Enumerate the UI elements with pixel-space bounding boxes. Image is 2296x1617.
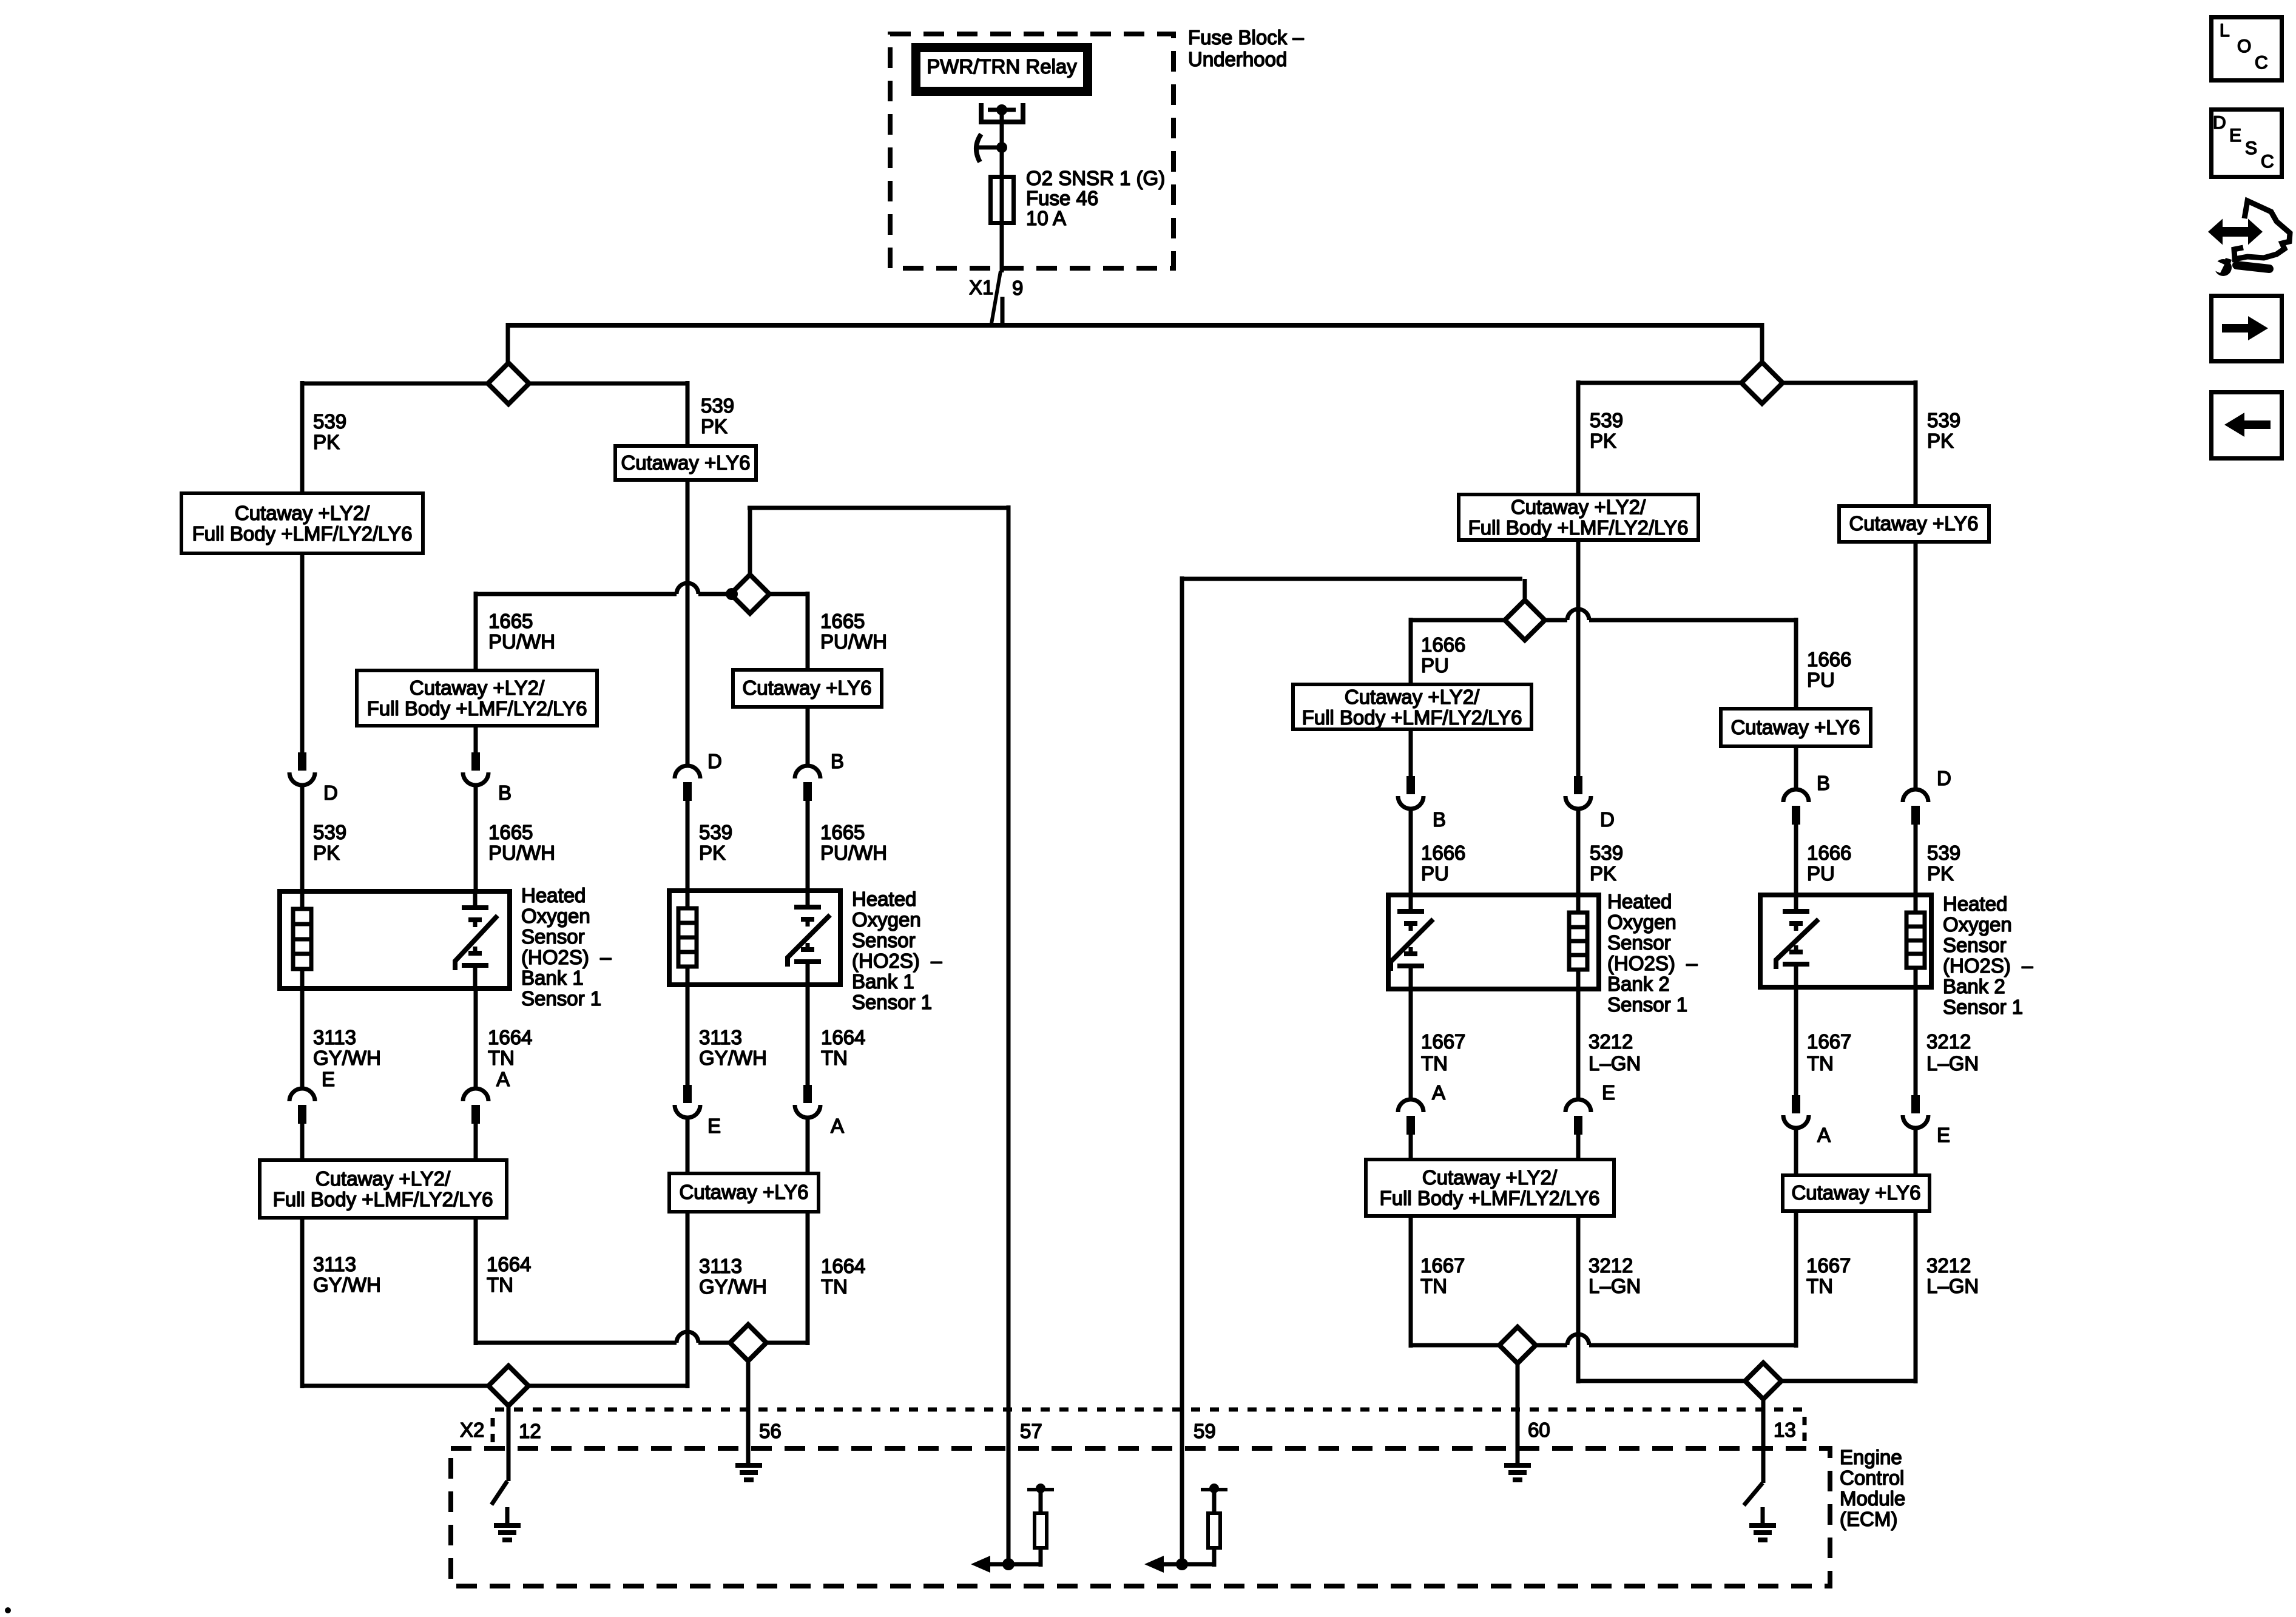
svg-text:Cutaway +LY2/: Cutaway +LY2/ [316,1167,451,1190]
ECM pin 13 internal switch to ground [1744,1483,1763,1505]
svg-text:1666: 1666 [1421,842,1465,864]
wire col5 [1409,809,1413,895]
sensor cell B2S1-2 [1776,893,1818,990]
ground (pin 13) [1749,1525,1776,1540]
svg-text:B: B [1817,772,1830,794]
wire col4 low [806,987,810,1085]
wire col2 box to connector [474,725,478,752]
svg-text:Underhood: Underhood [1188,48,1287,70]
wire col8 box to connector [1914,541,1918,789]
svg-text:Bank 2: Bank 2 [1607,973,1670,995]
wire col5 [1409,1135,1413,1160]
svg-text:L–GN: L–GN [1926,1052,1979,1075]
wire to col6 [1578,381,1741,385]
svg-text:1666: 1666 [1807,648,1851,670]
wire 3113 GY/WH merge [302,1384,490,1388]
option box Cutaway+LY2 col5 [1293,684,1531,729]
connector C3 pin D (539 PK) [1565,776,1615,831]
svg-text:PK: PK [1590,430,1616,452]
svg-text:Cutaway +LY2/: Cutaway +LY2/ [1345,686,1480,708]
svg-text:Full Body +LMF/LY2/LY6: Full Body +LMF/LY2/LY6 [1302,706,1522,729]
wire 1666 net riser [1523,579,1527,602]
svg-text:GY/WH: GY/WH [313,1047,381,1069]
wire col8 [1914,1128,1918,1176]
svg-text:L–GN: L–GN [1589,1275,1641,1297]
svg-text:Sensor: Sensor [1607,931,1671,954]
wire junction to fuse [1000,147,1004,177]
svg-text:539: 539 [1927,409,1960,431]
svg-text:B: B [1433,808,1446,831]
svg-text:Full Body +LMF/LY2/LY6: Full Body +LMF/LY2/LY6 [273,1188,493,1210]
svg-text:PK: PK [699,842,726,864]
svg-text:TN: TN [488,1047,515,1069]
svg-text:TN: TN [1421,1052,1448,1075]
svg-text:TN: TN [487,1274,513,1296]
svg-text:PK: PK [313,842,340,864]
X2 boundary tick [491,1418,495,1442]
wire to col3 [529,382,687,386]
splice S: 3212 L-GN [1745,1363,1781,1399]
svg-text:(ECM): (ECM) [1840,1508,1897,1530]
svg-text:1667: 1667 [1421,1030,1465,1053]
svg-text:(HO2S) –: (HO2S) – [1607,952,1698,974]
connector C2 pin E (3113) [675,1085,721,1137]
svg-text:539: 539 [1590,409,1623,431]
wire col5 low [1409,991,1413,1100]
svg-text:3113: 3113 [313,1026,356,1048]
ECM dashed border [451,1448,1830,1586]
svg-text:PK: PK [1590,862,1616,885]
sensor cell B2S1 [1391,893,1433,991]
svg-text:60: 60 [1528,1419,1550,1441]
svg-text:1664: 1664 [821,1255,865,1277]
svg-text:PK: PK [701,415,728,437]
svg-text:(HO2S) –: (HO2S) – [852,950,942,972]
svg-text:Bank 1: Bank 1 [852,970,914,993]
option box Cutaway+LY6 col7 [1721,709,1871,746]
splice S: left 539 PK distribution [488,363,529,404]
svg-text:1664: 1664 [821,1026,865,1048]
svg-text:E: E [1602,1081,1615,1104]
sensor B1S1(2): HO2S Bank 1 Sensor 1 box 2 [669,891,840,985]
sidebar icon: forward arrow [2212,296,2282,362]
option box Cutaway+LY6 col8 [1839,506,1989,542]
wire splice to pin 13 [1761,1399,1766,1483]
svg-text:539: 539 [313,410,346,433]
svg-text:Oxygen: Oxygen [521,905,590,927]
connector C1 pin A (1664) [463,1068,510,1124]
wire splice to col5 [1411,618,1505,623]
wire to col1 [302,382,488,386]
heater element B2S1 [1569,913,1587,970]
svg-text:E: E [322,1068,335,1090]
wire col7 [1794,1213,1798,1348]
connector C1 pin B (1665) [463,752,512,804]
connector C3 pin E (3212) [1565,1081,1615,1135]
svg-text:A: A [496,1068,510,1090]
svg-text:A: A [1817,1124,1831,1146]
svg-text:59: 59 [1194,1420,1216,1442]
ECM connector face X2 dotted line [495,1408,1803,1412]
wire 1667 TN merge [1411,1343,1501,1348]
ECM pin 59 internal: off-page arrow and pull-up resistor [1144,1484,1227,1573]
wire 3212 L-GN merge [1578,1379,1747,1383]
wire long vertical to pin 59 [1180,576,1184,1564]
svg-text:Heated: Heated [852,888,916,910]
wire col6 [1576,1135,1581,1160]
svg-text:1665: 1665 [488,610,533,632]
wire rail left drop [506,323,510,365]
connector C3 pin B (1666) [1398,776,1446,831]
svg-text:Control: Control [1840,1467,1904,1489]
splice S: 1667 TN [1499,1327,1536,1363]
svg-text:E: E [1937,1124,1950,1146]
svg-text:Module: Module [1840,1487,1905,1510]
wire col8 [1914,825,1918,895]
wire long vertical to pin 57 [1007,505,1011,1564]
connector C2 pin B (1665) [795,750,844,801]
svg-text:3212: 3212 [1589,1030,1633,1053]
svg-text:Cutaway +LY6: Cutaway +LY6 [621,451,750,474]
wire rail right drop [1760,323,1764,363]
option box Cutaway+LY2 cols5-6 [1366,1160,1614,1216]
svg-text:PU/WH: PU/WH [820,630,887,653]
connector C1 pin D (539 PK) [289,752,338,804]
wire col1 [300,1124,305,1161]
svg-text:TN: TN [1807,1052,1834,1075]
svg-text:1667: 1667 [1806,1254,1851,1277]
svg-text:1666: 1666 [1421,633,1465,656]
svg-text:TN: TN [1806,1275,1833,1297]
svg-text:Cutaway +LY6: Cutaway +LY6 [1849,512,1978,535]
wire col8 [1914,1213,1918,1383]
svg-text:GY/WH: GY/WH [699,1275,767,1298]
svg-text:1665: 1665 [820,610,865,632]
svg-text:9: 9 [1012,277,1023,299]
wire col7 box to connector [1794,746,1798,789]
wire col2 [474,1124,478,1161]
wire col1 [300,785,305,891]
ground (pin 12) [494,1525,521,1540]
wire col3 [686,1214,690,1388]
svg-text:Full Body +LMF/LY2/LY6: Full Body +LMF/LY2/LY6 [1380,1187,1600,1209]
svg-text:Bank 2: Bank 2 [1943,975,2005,998]
svg-text:539: 539 [313,821,346,843]
svg-text:Sensor: Sensor [852,929,916,951]
splice S: right 539 PK distribution [1741,362,1783,403]
connector C4 pin B (1666) [1783,772,1830,825]
heater element B1S1-2 [678,908,697,967]
svg-text:3212: 3212 [1589,1254,1633,1277]
ECM pin 57 internal: off-page arrow and pull-up resistor [971,1484,1054,1573]
svg-text:PK: PK [313,431,340,453]
svg-text:Oxygen: Oxygen [1943,913,2012,936]
option box Cutaway+LY2 col2 [357,670,597,726]
wire col7 [1794,1128,1798,1176]
svg-text:E: E [707,1115,721,1137]
option box Cutaway+LY2 cols1-2 [260,1160,507,1218]
wire splice to pin 56 [746,1361,751,1468]
wire col3 [686,801,690,891]
svg-text:10 A: 10 A [1026,207,1066,229]
svg-text:539: 539 [701,394,734,417]
svg-text:L: L [2220,21,2230,41]
sensor B1S1: HO2S Bank 1 Sensor 1 box [280,891,510,988]
svg-text:Cutaway +LY6: Cutaway +LY6 [1730,716,1860,738]
svg-text:Sensor 1: Sensor 1 [852,991,932,1013]
svg-text:Heated: Heated [521,884,586,906]
svg-text:Cutaway +LY6: Cutaway +LY6 [1791,1181,1920,1204]
svg-text:1665: 1665 [488,821,533,843]
wire col2 [474,1220,478,1345]
fuse block - underhood dashed box [890,34,1173,268]
sensor cell B1S1 [455,889,498,991]
svg-text:1664: 1664 [487,1253,531,1275]
svg-text:3113: 3113 [313,1253,356,1275]
sensor cell B1S1-2 [788,888,830,987]
wire col4 [806,1214,810,1345]
ground (pin 60) [1504,1465,1531,1480]
svg-text:D: D [2213,113,2226,133]
svg-text:12: 12 [519,1420,541,1442]
svg-text:E: E [2229,126,2241,146]
svg-text:PU: PU [1807,669,1835,691]
svg-text:539: 539 [1927,842,1960,864]
svg-text:Engine: Engine [1840,1446,1902,1468]
connector C2 pin D (539 PK) [675,750,722,801]
connector C4 pin A (1667) [1783,1095,1831,1146]
svg-text:Cutaway +LY2/: Cutaway +LY2/ [1511,496,1646,518]
svg-text:Full Body +LMF/LY2/LY6: Full Body +LMF/LY2/LY6 [192,522,413,545]
svg-text:Full Body +LMF/LY2/LY6: Full Body +LMF/LY2/LY6 [367,697,587,720]
svg-text:3212: 3212 [1926,1254,1971,1277]
page mark [5,1607,11,1613]
wire relay to junction [1000,112,1004,149]
svg-text:Fuse 46: Fuse 46 [1026,187,1098,209]
splice S: 1665 PU/WH [731,575,769,613]
wire splice to pin 12 [507,1406,511,1481]
svg-text:PU: PU [1421,862,1449,885]
connector C4 pin E (3212) [1903,1095,1950,1146]
sensor B2S1(2): HO2S Bank 2 Sensor 1 box 2 [1760,895,1931,987]
svg-text:D: D [1600,808,1615,831]
svg-text:1664: 1664 [488,1026,532,1048]
wire to col8 [1783,381,1916,385]
sidebar icon: back arrow [2212,393,2282,459]
wire col3 [686,1118,690,1174]
svg-text:Fuse Block –: Fuse Block – [1188,26,1304,49]
svg-text:539: 539 [1590,842,1623,864]
wire col4 [806,801,810,891]
wire col4 box to connector [806,706,810,767]
svg-text:PU/WH: PU/WH [820,842,887,864]
wire col1 [300,1220,305,1388]
svg-text:O: O [2237,36,2251,56]
svg-text:A: A [831,1115,844,1137]
svg-text:(HO2S) –: (HO2S) – [1943,954,2033,977]
svg-text:C: C [2261,152,2274,172]
wire fuse to rail [1000,225,1004,272]
option box Cutaway+LY6 cols7-8 [1783,1175,1930,1211]
option box Cutaway+LY6 cols3-4 [669,1173,819,1212]
svg-text:PK: PK [1927,430,1954,452]
wire col8 low [1914,970,1918,1095]
svg-text:PWR/TRN Relay: PWR/TRN Relay [927,55,1077,78]
svg-text:1666: 1666 [1807,842,1851,864]
heater element B1S1 [293,909,311,969]
svg-text:Oxygen: Oxygen [1607,911,1676,933]
relay K: PWR/TRN Relay [916,48,1088,92]
wire col1 box to connector [300,553,305,752]
connector C4 pin D (539 PK) [1903,767,1951,825]
svg-text:Sensor: Sensor [1943,934,2007,956]
svg-text:PU: PU [1807,862,1835,885]
sidebar icon: vehicle outline with arrow and wrench [2207,201,2290,276]
svg-text:Sensor 1: Sensor 1 [1943,996,2023,1018]
svg-text:1667: 1667 [1807,1030,1851,1053]
svg-text:O2 SNSR 1 (G): O2 SNSR 1 (G) [1026,167,1165,189]
connector C1 pin E (3113) [289,1068,335,1124]
ground (pin 56) [735,1465,762,1480]
svg-text:3212: 3212 [1926,1030,1971,1053]
svg-text:Sensor 1: Sensor 1 [1607,993,1687,1016]
wire col4 [806,1118,810,1174]
relay terminal socket [981,103,1023,122]
svg-text:Cutaway +LY2/: Cutaway +LY2/ [1422,1166,1558,1189]
svg-text:Cutaway +LY6: Cutaway +LY6 [679,1181,808,1203]
svg-text:3113: 3113 [699,1255,742,1277]
svg-text:GY/WH: GY/WH [313,1274,381,1296]
svg-text:539: 539 [699,821,732,843]
svg-text:Heated: Heated [1607,890,1672,913]
wire col6 box to connector [1576,539,1581,776]
svg-text:Cutaway +LY6: Cutaway +LY6 [742,677,871,699]
svg-text:1665: 1665 [820,821,865,843]
wire splice to col7 [1545,618,1567,623]
wire 1664 TN merge [476,1341,677,1345]
sensor B2S1: HO2S Bank 2 Sensor 1 box [1388,895,1599,989]
svg-text:(HO2S) –: (HO2S) – [521,946,612,968]
sidebar icon: LOC [2212,18,2282,81]
svg-text:3113: 3113 [699,1026,742,1048]
svg-text:L–GN: L–GN [1926,1275,1979,1297]
svg-text:Heated: Heated [1943,893,2007,915]
svg-text:GY/WH: GY/WH [699,1047,767,1069]
svg-text:TN: TN [821,1275,848,1298]
svg-text:13: 13 [1774,1419,1796,1441]
svg-text:PK: PK [1927,862,1954,885]
svg-text:D: D [323,781,338,804]
svg-text:Oxygen: Oxygen [852,908,921,931]
svg-text:TN: TN [1420,1275,1447,1297]
svg-text:Cutaway +LY2/: Cutaway +LY2/ [235,502,370,524]
splice S: 1664 TN [730,1325,766,1361]
wire 1665 net riser [748,508,752,576]
option box Cutaway+LY6 col3 [615,446,756,480]
relay movable contact hook [976,134,1007,162]
connector X1 pin 9 slash [991,271,1001,327]
svg-text:56: 56 [759,1420,782,1442]
heater element B2S1-2 [1906,913,1925,968]
wire col2 [474,785,478,891]
svg-text:PU/WH: PU/WH [488,630,555,653]
connector C2 pin A (1664) [795,1085,844,1137]
svg-text:Sensor: Sensor [521,925,585,948]
svg-text:B: B [831,750,844,772]
wire col3 low [686,987,690,1085]
wire col6 [1576,1218,1581,1383]
wire splice to col4 [769,592,808,596]
svg-text:PU/WH: PU/WH [488,842,555,864]
option box Cutaway+LY2 col1 [181,493,423,553]
option box Cutaway+LY6 col4 [733,670,882,707]
svg-text:S: S [2245,138,2257,158]
wire col2 low [474,991,478,1089]
svg-text:57: 57 [1020,1420,1042,1442]
ECM pin 12 internal switch to ground [491,1481,507,1505]
wire splice to pin 60 [1516,1363,1520,1468]
wire col1 low [300,991,305,1089]
svg-text:Full Body +LMF/LY2/LY6: Full Body +LMF/LY2/LY6 [1468,516,1689,539]
svg-text:X1: X1 [969,276,993,299]
svg-text:PU: PU [1421,654,1449,677]
wire col7 [1794,825,1798,895]
connector C3 pin A (1667) [1398,1081,1445,1135]
fuse F46: O2 SNSR 1 (G) Fuse 46 10A [991,177,1014,223]
splice S: 3113 GY/WH [488,1366,528,1406]
svg-text:TN: TN [821,1047,848,1069]
svg-text:Cutaway +LY2/: Cutaway +LY2/ [410,677,545,699]
option box Cutaway+LY2 col6 [1459,495,1698,540]
svg-text:B: B [498,781,512,804]
svg-text:X2: X2 [460,1419,484,1441]
wire: 539 PK power rail [507,323,1762,328]
svg-text:D: D [707,750,722,772]
svg-text:1667: 1667 [1420,1254,1465,1277]
wire splice to col2 [698,592,731,596]
svg-text:Sensor 1: Sensor 1 [521,987,601,1010]
svg-text:Bank 1: Bank 1 [521,967,584,989]
pin13 boundary tick [1803,1417,1807,1441]
wire col3 box to connector [686,479,690,767]
svg-text:L–GN: L–GN [1589,1052,1641,1075]
wire col5 [1409,1218,1413,1348]
wire col5 box to connector [1409,729,1413,776]
wire col7 low [1794,990,1798,1095]
splice S: 1666 PU [1505,600,1545,640]
svg-text:A: A [1432,1081,1445,1104]
svg-text:C: C [2255,53,2268,73]
sidebar icon: DESC [2212,110,2282,177]
wire col6 low [1576,971,1581,1100]
wire col6 [1576,809,1581,895]
svg-text:D: D [1937,767,1951,789]
